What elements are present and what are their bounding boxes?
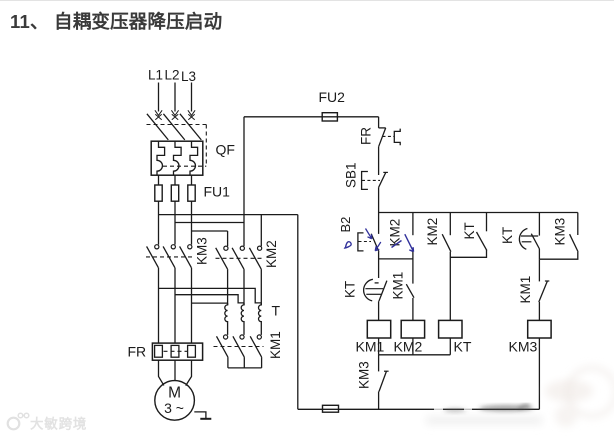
FU2 label (319, 89, 346, 105)
SB1 dashed link (362, 179, 380, 181)
QF linkage dashed line (147, 124, 207, 126)
motor M circle (155, 381, 195, 421)
contact KM3 pole 3 fixed circle (188, 245, 192, 249)
KM1 label (268, 331, 283, 359)
svg-text:KM1: KM1 (391, 272, 406, 300)
wire KM2 pole1 from bus3 (227, 231, 229, 246)
wire KM3 coil down (538, 338, 540, 409)
KM1 linkage dashed (214, 346, 264, 348)
wire KM1 pole 1 down (227, 357, 229, 368)
KM3 NC label (357, 361, 372, 389)
QF pole 1 contact cross (155, 114, 161, 120)
QF pole 1 arrowhead (155, 110, 162, 115)
contact KM2 aux blade (442, 234, 451, 252)
QF pole 2 arrowhead (171, 110, 178, 115)
QF dashed box right edge (205, 125, 207, 167)
contact right KT arc (519, 229, 527, 250)
wire branch3 down (449, 252, 451, 321)
SB2 label B2 (338, 217, 353, 233)
wire L2 incoming (174, 83, 176, 112)
top border (0, 0, 614, 2)
svg-text:KM3: KM3 (553, 218, 568, 246)
wire KM2 pole 3 to coil (260, 269, 262, 305)
wire FR to SB1 (378, 147, 380, 175)
contact KM2 pole 1 fixed circle (224, 246, 228, 250)
KM2 label (264, 240, 279, 268)
contact right KM1 blade (539, 281, 548, 302)
coil KM1 (367, 320, 390, 338)
node L2 label (165, 68, 180, 83)
QF label (216, 142, 235, 158)
svg-text:3 ~: 3 ~ (164, 400, 184, 416)
wire KM2 pole3 from bus1 (260, 215, 262, 247)
contact KM1 pole 1 fixed circle (224, 335, 228, 339)
svg-text:FR: FR (359, 127, 374, 145)
contact KT hook (375, 282, 379, 284)
svg-text:KM1: KM1 (356, 339, 385, 355)
contact KM3 NC tick (384, 370, 389, 372)
KM1 star bar (228, 367, 262, 369)
svg-text:KM2: KM2 (425, 218, 440, 246)
contact SB2 blade (371, 234, 379, 252)
QF pole 3 blade (180, 114, 201, 140)
wire KM2 pole 2 to coil (243, 269, 245, 305)
coil KM3 label (509, 339, 538, 355)
FU1 label (204, 184, 231, 200)
ground bar (200, 418, 211, 420)
node L1 label (148, 68, 163, 83)
SB2 bracket (358, 233, 364, 251)
contact KT chord upper (365, 288, 383, 290)
wire branch4 down (450, 250, 486, 257)
contact FR stub (379, 127, 386, 129)
wire right KT top (538, 213, 540, 236)
wire QF to FU2 (174, 175, 176, 185)
wire tap phase1 to coil3 (159, 288, 262, 303)
contact KM3 pole 2 fixed circle (171, 245, 175, 249)
contact right KT blade (531, 234, 539, 249)
wire branch2 top (412, 213, 414, 236)
contact KM3 pole 1 fixed circle (155, 245, 159, 249)
right KM1 label (518, 276, 533, 304)
contact KM3 aux blade (570, 234, 579, 252)
wire KM2 pole 1 to coil (227, 269, 229, 305)
bus phase3 (192, 230, 228, 232)
wire self-hold link (379, 258, 413, 260)
wire KM3 NC to bottom (378, 392, 380, 410)
bus phase2 (175, 222, 244, 224)
FR heater 2 (171, 345, 179, 357)
contact KM3 pole 2 blade (163, 246, 175, 267)
contact KT aux blade (477, 232, 487, 250)
wire QF to FU1 (158, 175, 160, 185)
wire FR to motor 1 (159, 360, 164, 385)
title text (10, 11, 222, 32)
svg-text:FU2: FU2 (319, 89, 346, 105)
svg-text:KT: KT (462, 222, 477, 239)
contact FR dashed link (383, 135, 395, 137)
wire branch2 mid (412, 252, 414, 284)
wire tap phase2 to coil2 (175, 295, 244, 303)
QF pole 3 contact cross (188, 114, 194, 120)
wire KM3 branch down (539, 252, 577, 259)
watermark dark smudge (426, 380, 593, 425)
wire L1 incoming (158, 83, 160, 112)
contact right KM1 tick (545, 280, 549, 282)
svg-text:11、 自耦变压器降压启动: 11、 自耦变压器降压启动 (10, 11, 222, 32)
wire coil join line (379, 354, 451, 356)
SB1 label (344, 162, 359, 188)
contact KM2 pole 3 fixed circle (258, 246, 262, 250)
KM3 aux label (553, 218, 568, 246)
watermark logo bottom-left (8, 413, 88, 431)
transformer T coil 2 (241, 303, 244, 335)
wire SB2 junction (378, 252, 380, 278)
QF dashed trip line (163, 165, 206, 167)
coil KM1 label (356, 339, 385, 355)
node L3 label (181, 69, 196, 84)
wire KM1 coil down (378, 338, 380, 355)
ground wire (194, 412, 206, 419)
KM3 linkage dashed (146, 256, 194, 258)
svg-text:L2: L2 (165, 68, 180, 83)
wire right rail mid (538, 259, 540, 281)
svg-text:QF: QF (216, 142, 235, 158)
contact KM2 pole 1 blade (216, 248, 228, 269)
wire bus to SB2 (378, 213, 380, 234)
FR heater 3 (188, 345, 196, 357)
SB2 blue scribble (344, 242, 351, 248)
svg-text:FU1: FU1 (204, 184, 231, 200)
bus phase1 (159, 214, 298, 216)
contact KT arc (364, 279, 373, 301)
contact right KT chord upper (521, 235, 538, 237)
wire QF to FU3 (191, 175, 193, 185)
wire FR to motor 3 (186, 360, 192, 385)
wire control rail top (378, 117, 380, 128)
wire control feed top (244, 116, 379, 118)
right KT label (500, 227, 515, 244)
svg-text:L1: L1 (148, 68, 163, 83)
svg-text:KM2: KM2 (388, 219, 403, 247)
coil KM2 label (394, 339, 423, 355)
QF pole 2 contact cross (172, 114, 178, 120)
contact SB1 blade (379, 173, 386, 188)
motor 3~ label (164, 400, 184, 416)
wire branch4 top (486, 213, 488, 232)
QF pole 1 blade (147, 114, 168, 140)
wire SB1 to bus (378, 187, 380, 212)
fuse FU2 top (322, 113, 337, 121)
wire right KT down (538, 249, 540, 259)
contact KM2 self-hold blade blue (405, 234, 414, 252)
svg-text:大敏跨境: 大敏跨境 (30, 416, 87, 432)
wire FU1-2 down (174, 201, 176, 244)
fuse FU1 element 2 (171, 185, 178, 201)
contact right KT chord lower (522, 241, 532, 243)
KM2 label blue check (392, 241, 402, 248)
SB1 bracket (362, 172, 368, 190)
fuse FU2 bottom (323, 405, 339, 412)
KM3 label (195, 237, 210, 265)
wire right rail to coil (538, 302, 540, 321)
QF pole 1 overload element (157, 141, 165, 175)
wire rail to KM3 NC (378, 355, 380, 372)
control bottom bus (298, 408, 540, 410)
wire FU2 tap vertical (243, 117, 245, 246)
wire KM1 pole 2 down (243, 357, 245, 368)
coil KT label (454, 339, 472, 355)
FR heater dashed link (164, 350, 188, 352)
wire FU1-1 down (158, 201, 160, 244)
svg-text:FR: FR (128, 344, 147, 360)
svg-text:SB1: SB1 (344, 162, 359, 188)
wire KM3 branch top (577, 213, 579, 236)
FR box (152, 343, 202, 360)
fuse FU1 element 3 (188, 185, 195, 201)
T label (272, 303, 281, 319)
KM1 interlock label (391, 272, 406, 300)
svg-text:KM3: KM3 (195, 237, 210, 265)
control bus (379, 212, 578, 214)
QF pole 3 arrowhead (188, 110, 195, 115)
svg-text:B2: B2 (338, 217, 353, 233)
QF pole 3 overload element (190, 141, 198, 175)
wire main right rail (297, 215, 299, 410)
svg-text:T: T (272, 303, 281, 319)
QF pole 2 overload element (174, 141, 182, 175)
wire branch2 to coil (412, 298, 414, 321)
wire KM2 coil down (412, 338, 414, 355)
svg-text:KT: KT (454, 339, 472, 355)
coil KT (439, 320, 462, 338)
contact SB1 blade tick (383, 171, 388, 173)
FR contact label (359, 127, 374, 145)
wire branch3 top (449, 213, 451, 236)
KT contact label (343, 281, 358, 298)
QF breaker box (151, 141, 203, 175)
svg-text:L3: L3 (181, 69, 196, 84)
contact KM2 pole 2 fixed circle (240, 246, 244, 250)
wire KT to KM1 coil (378, 301, 380, 320)
wire FR to motor 2 (174, 360, 176, 381)
wire FU1-3 down (191, 201, 193, 244)
contact FR blade (379, 128, 386, 147)
wire L3 incoming (191, 83, 193, 112)
contact KM1 pole 2 fixed circle (240, 335, 244, 339)
KM2 aux label (425, 218, 440, 246)
coil KM3 (528, 320, 551, 338)
FR label (128, 344, 147, 360)
svg-text:KM1: KM1 (268, 331, 283, 359)
svg-text:KM3: KM3 (357, 361, 372, 389)
contact KM2 pole 2 blade (232, 248, 244, 269)
QF pole 2 blade (163, 114, 184, 140)
SB2 dashed link (359, 241, 372, 243)
svg-text:KM2: KM2 (264, 240, 279, 268)
wire tap phase3 to coil1 (192, 302, 228, 304)
motor M label (168, 385, 181, 402)
SB2 blue arrow upper (366, 229, 372, 239)
svg-text:KM1: KM1 (518, 276, 533, 304)
contact KT chord lower (366, 293, 381, 295)
contact KM1 pole 3 blade (250, 336, 261, 357)
SB2 blue arrow lower (375, 242, 381, 251)
contact KM1 pole 1 blade (217, 336, 228, 357)
contact KM1 pole 3 fixed circle (257, 335, 261, 339)
wire KM3 pole 3 down (191, 268, 193, 343)
transformer T coil 1 (225, 303, 228, 335)
contact KT blade (379, 281, 387, 302)
wire KM1 pole 3 down (261, 357, 263, 368)
contact KM2 pole 3 blade (249, 248, 261, 269)
KM2 self-hold label (388, 219, 403, 247)
contact KM3 pole 1 blade (147, 246, 159, 267)
wire KM3 pole 2 down (174, 268, 176, 343)
contact FR bracket (394, 129, 400, 146)
contact KM1 pole 2 blade (233, 336, 244, 357)
wire KT coil down (449, 338, 451, 355)
svg-text:KM2: KM2 (394, 339, 423, 355)
svg-text:KT: KT (500, 227, 515, 244)
transformer T coil 3 (259, 303, 262, 335)
wire KM3 pole 1 down (158, 268, 160, 343)
fuse FU1 element 1 (155, 185, 162, 201)
contact KM3 pole 3 blade (180, 246, 192, 267)
svg-text:KT: KT (343, 281, 358, 298)
contact KM3 NC blade (379, 371, 386, 391)
svg-text:KM3: KM3 (509, 339, 538, 355)
FR heater 1 (155, 345, 163, 357)
watermark light circle (555, 368, 614, 427)
KM2 linkage dashed (216, 257, 264, 259)
KT aux label (462, 222, 477, 239)
contact KM1 interlock blade (406, 284, 414, 298)
coil KM2 (401, 320, 424, 338)
